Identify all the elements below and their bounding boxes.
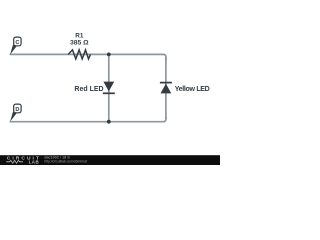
junction dot top (node at top of red LED branch) <box>107 53 111 57</box>
wire bottom horizontal (node D to bottom-right corner) <box>10 117 166 122</box>
diode D2 Yellow LED (cathode up) <box>160 83 172 94</box>
svg-text:Red LED: Red LED <box>74 86 103 93</box>
footer watermark bar <box>0 155 220 165</box>
svg-text:R1: R1 <box>75 33 84 40</box>
wire right vertical (through yellow LED) <box>165 57 167 119</box>
wire top horizontal (node C to resistor and to right corner) <box>10 54 166 60</box>
junction dot bottom (node at bottom of red LED branch) <box>107 120 111 124</box>
wire red LED branch vertical <box>108 54 110 121</box>
CircuitLab logo resistor zigzag <box>6 160 23 163</box>
node C flag <box>10 37 21 55</box>
svg-text:385 Ω: 385 Ω <box>70 40 89 47</box>
resistor R1 zigzag <box>68 50 90 59</box>
svg-text:http://circuitlab.com/c6mhnaf: http://circuitlab.com/c6mhnaf <box>44 159 87 163</box>
diode D1 Red LED (cathode down) <box>103 82 115 94</box>
svg-text:C: C <box>15 40 19 46</box>
svg-text:D: D <box>15 107 19 113</box>
svg-text:Yellow LED: Yellow LED <box>175 86 210 93</box>
node D flag <box>10 104 21 122</box>
svg-text:LAB: LAB <box>29 160 40 165</box>
